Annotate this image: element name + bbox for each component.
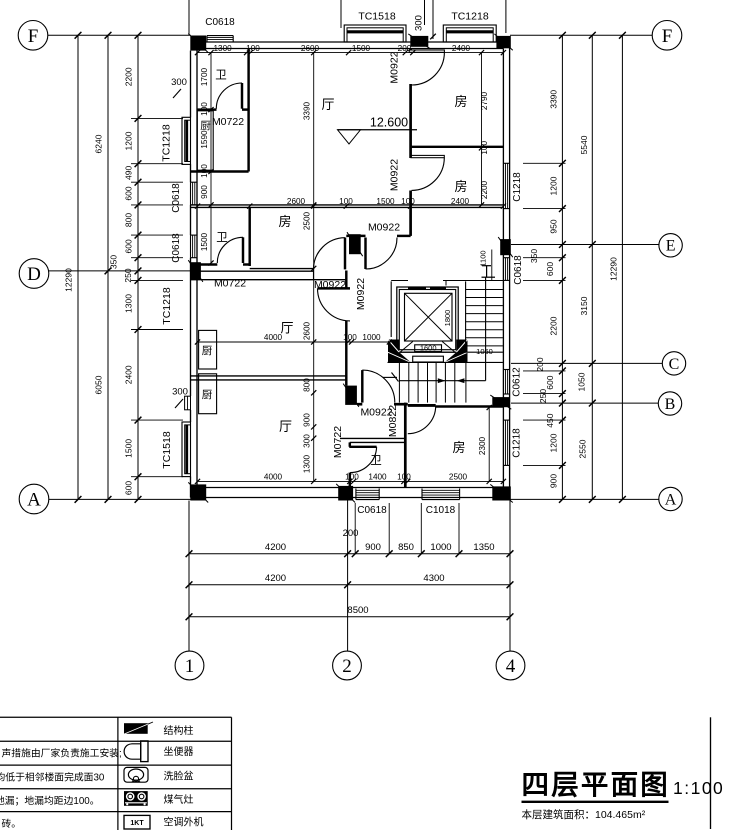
dim 300 top-left (171, 77, 187, 98)
svg-text:1300: 1300 (303, 454, 312, 473)
kitchen counter 3 (199, 374, 217, 414)
wall bedroom-mid bottom (191, 269, 348, 280)
svg-text:900: 900 (303, 413, 312, 427)
top wall outer line (191, 41, 504, 43)
svg-text:D: D (27, 264, 41, 285)
axis extension 1 top (188, 0, 190, 35)
svg-text:2400: 2400 (451, 197, 470, 206)
svg-text:4200: 4200 (265, 542, 286, 553)
wall row2 full (191, 204, 507, 209)
elevator cab with X (405, 293, 453, 341)
svg-text:TC1218: TC1218 (451, 11, 489, 23)
wall bath2 right (248, 207, 250, 266)
svg-text:1800: 1800 (443, 310, 452, 327)
room label fang3 (278, 214, 291, 229)
svg-text:C0618: C0618 (205, 17, 235, 28)
svg-text:房: 房 (278, 214, 291, 229)
svg-text:M0722: M0722 (332, 426, 344, 458)
svg-text:C0618: C0618 (513, 255, 524, 285)
svg-text:3390: 3390 (303, 101, 312, 120)
column left at D (188, 260, 203, 282)
svg-text:12290: 12290 (609, 257, 619, 281)
title area note (522, 808, 646, 821)
elevator door dashes (408, 287, 446, 290)
svg-text:M0822: M0822 (387, 405, 399, 437)
svg-text:2500: 2500 (449, 473, 468, 482)
svg-text:1590: 1590 (200, 130, 209, 149)
svg-text:6240: 6240 (94, 134, 104, 153)
svg-text:厅: 厅 (279, 419, 292, 434)
stairs up symbol (482, 266, 496, 278)
dimension text 6240 (94, 134, 104, 153)
top wall inner line (198, 48, 504, 50)
svg-text:8500: 8500 (347, 605, 368, 616)
svg-text:1200: 1200 (549, 433, 559, 452)
svg-text:卫: 卫 (370, 455, 382, 467)
room label chu3 (202, 389, 213, 401)
window C1218 right lower (503, 420, 509, 465)
svg-text:3390: 3390 (549, 90, 559, 109)
column top axis2 (408, 34, 430, 49)
svg-text:3150: 3150 (579, 296, 589, 315)
svg-text:200: 200 (535, 357, 545, 371)
stairs direction line (399, 277, 486, 381)
bottom dimension row 2 line+ticks (186, 581, 514, 588)
label TC1518 left (161, 431, 173, 469)
svg-text:2200: 2200 (549, 316, 559, 335)
label C0618 right (513, 255, 524, 285)
svg-text:F: F (662, 26, 673, 47)
dimension text 3150 (579, 296, 589, 315)
svg-text:300: 300 (414, 15, 425, 31)
svg-text:800: 800 (124, 213, 134, 227)
bottom dimension texts row1 (265, 542, 495, 553)
svg-text:房: 房 (454, 94, 467, 109)
svg-text:1300: 1300 (124, 294, 134, 313)
svg-text:TC1218: TC1218 (161, 287, 173, 325)
door M0722 bath2 (217, 237, 243, 263)
room label fang2 (454, 179, 467, 194)
label M0922 bedroom-mid (314, 279, 346, 291)
door M0922 unit3 entry (362, 370, 395, 403)
svg-text:100: 100 (200, 164, 209, 178)
svg-text:100: 100 (246, 44, 260, 53)
interior dim row1 line (195, 50, 506, 55)
svg-text:5540: 5540 (579, 135, 589, 154)
svg-text:1500: 1500 (200, 232, 209, 251)
svg-text:M0722: M0722 (212, 116, 244, 128)
bottom dimension texts row2 (265, 573, 445, 584)
right wall inner line (502, 49, 504, 488)
svg-text:600: 600 (124, 239, 134, 253)
door M0922 bedroom1 (409, 50, 444, 85)
svg-text:2: 2 (342, 656, 352, 677)
elevator corner block right (445, 340, 468, 363)
label C0618 left lower (171, 233, 182, 263)
dimension chain right inner line+ticks (559, 32, 566, 503)
svg-text:300: 300 (172, 387, 188, 398)
svg-text:坐便器: 坐便器 (164, 745, 194, 758)
column bottom-left corner (188, 482, 208, 502)
label C0618 bottom (357, 505, 387, 516)
wall elevator lobby top (391, 281, 503, 286)
wall bath1 right (247, 49, 249, 172)
frame line right (710, 717, 712, 829)
svg-text:450: 450 (545, 413, 555, 427)
axis circle C (662, 352, 685, 375)
svg-text:100: 100 (397, 473, 411, 482)
svg-text:洗脸盆: 洗脸盆 (164, 770, 194, 783)
label M0922 unit3 entry (360, 406, 392, 418)
svg-text:900: 900 (200, 185, 209, 199)
wall bedroom4 top (436, 405, 504, 407)
svg-text:800: 800 (303, 378, 312, 392)
svg-text:C0618: C0618 (171, 183, 182, 213)
label M0722 bath2 (214, 278, 246, 290)
svg-text:1700: 1700 (200, 67, 209, 86)
door M0922 corridor east (366, 238, 398, 270)
svg-text:C1218: C1218 (512, 172, 523, 202)
svg-text:C1218: C1218 (512, 428, 523, 458)
room label fang4 (452, 440, 465, 455)
svg-text:4200: 4200 (265, 573, 286, 584)
axis circle A right (659, 487, 682, 510)
extension lines bottom windows (355, 503, 459, 554)
svg-text:1500: 1500 (352, 44, 371, 53)
svg-text:结构柱: 结构柱 (164, 724, 194, 737)
extension line top x341 (340, 0, 342, 28)
column top-left corner (188, 34, 208, 53)
label M0822 bedroom4 (387, 405, 399, 437)
window C1218 right upper (503, 163, 509, 208)
label TC1218 top (451, 11, 489, 23)
column center lower (343, 384, 359, 407)
elevator shaft inner (399, 290, 455, 350)
extension line top x424.5 (424, 0, 426, 25)
elevator corner block left (388, 340, 411, 363)
wall bath3 left (349, 442, 351, 487)
room label ting3 (279, 419, 292, 434)
interior dim column left texts (200, 67, 209, 251)
svg-text:350: 350 (529, 249, 539, 263)
svg-text:厅: 厅 (321, 97, 334, 112)
svg-text:4000: 4000 (264, 473, 283, 482)
axis line A left (49, 498, 191, 500)
dimension text 6050 (94, 375, 104, 394)
stairs upper flight treads (466, 281, 503, 352)
dimension chain right middle line+ticks (589, 32, 596, 503)
legend label stove (164, 793, 194, 806)
label C1218 right lower (512, 428, 523, 458)
axis circle E (659, 234, 682, 257)
legend note row5 (2, 817, 22, 830)
svg-text:地漏；地漏均距边100。: 地漏；地漏均距边100。 (0, 794, 100, 807)
legend icon column (123, 722, 153, 735)
bay window TC1218 top (443, 25, 496, 42)
svg-text:TC1518: TC1518 (358, 11, 396, 23)
dimension chain right outer line+ticks (619, 32, 626, 503)
legend label column (164, 724, 194, 737)
column bottom-right corner (490, 484, 513, 502)
axis circle 1 (175, 651, 204, 680)
left wall inner line (196, 49, 198, 488)
svg-text:2790: 2790 (480, 91, 489, 110)
stairs landing line 2 (388, 361, 503, 363)
title text (522, 769, 671, 800)
legend note row3 (0, 771, 105, 784)
bottom dimension row 1 line+ticks (186, 550, 514, 557)
svg-text:6050: 6050 (94, 375, 104, 394)
interior dim column mid line (311, 50, 316, 484)
svg-text:100: 100 (401, 197, 415, 206)
svg-text:C: C (669, 356, 680, 373)
level mark 12.600 (338, 116, 418, 145)
axis circle A left (19, 484, 49, 514)
svg-text:600: 600 (545, 375, 555, 389)
dimension text 12290 right (609, 257, 619, 281)
elevator sill (388, 352, 468, 362)
svg-text:100: 100 (345, 473, 359, 482)
svg-text:1600: 1600 (420, 343, 437, 352)
wall bath3-bedroom4 divider (404, 403, 407, 488)
svg-text:C0618: C0618 (357, 505, 387, 516)
svg-text:950: 950 (549, 219, 559, 233)
label M0922 bedroom2 (389, 159, 401, 191)
interior dim row1 texts (213, 44, 470, 53)
interior dim row3 texts (264, 333, 381, 342)
svg-text:2200: 2200 (480, 180, 489, 199)
svg-text:1350: 1350 (473, 542, 494, 553)
svg-text:300: 300 (303, 434, 312, 448)
svg-text:C1018: C1018 (426, 505, 456, 516)
title scale (673, 778, 724, 798)
axis circle 2 (333, 651, 362, 680)
dimension text 5540 (579, 135, 589, 154)
svg-text:2400: 2400 (452, 44, 471, 53)
interior dim bedroom4 line (478, 405, 492, 484)
room label ting2 (280, 321, 293, 336)
wall stair lobby bottom (357, 403, 408, 406)
svg-text:A: A (27, 490, 41, 511)
axis line C (511, 362, 662, 364)
window C0612 right (503, 370, 509, 395)
interior dim column left line (208, 50, 213, 266)
bottom dimension text 8500 (347, 605, 368, 616)
room label wei2 (216, 232, 228, 244)
svg-text:300: 300 (171, 77, 187, 88)
door M0922 bedroom-mid (314, 238, 346, 270)
svg-text:C0618: C0618 (171, 233, 182, 263)
axis circle B (658, 392, 681, 415)
interior dim row3 line (195, 339, 392, 344)
legend icon AC unit (124, 815, 150, 829)
wall elevator lobby west (390, 281, 392, 337)
axis line E (511, 244, 659, 246)
title underline (522, 801, 669, 803)
svg-text:1100: 1100 (479, 250, 488, 266)
door M0922 bedroom2 (411, 155, 444, 190)
dimension text 1050 (577, 372, 587, 391)
svg-text:900: 900 (365, 542, 381, 553)
door M0822 bedroom4 (408, 405, 436, 433)
window 300 left (185, 396, 191, 410)
bottom dimension row 3 line+ticks (186, 613, 514, 620)
svg-text:1000: 1000 (430, 542, 451, 553)
svg-text:A: A (665, 491, 677, 508)
svg-text:1: 1 (185, 656, 195, 677)
svg-text:1500: 1500 (124, 439, 134, 458)
legend label basin (164, 770, 194, 783)
svg-text:2600: 2600 (301, 44, 320, 53)
dimension chain left middle line+ticks (105, 32, 112, 503)
svg-text:厨: 厨 (202, 345, 213, 357)
room label chu2 (202, 345, 213, 357)
wall bath2 bottom (197, 263, 250, 265)
svg-text:F: F (28, 26, 39, 47)
extension lines right (523, 163, 566, 465)
svg-text:2600: 2600 (287, 197, 306, 206)
svg-text:600: 600 (124, 186, 134, 200)
label TC1518 top (358, 11, 396, 23)
svg-text:B: B (665, 396, 676, 413)
room label wei3 (370, 455, 382, 467)
svg-text:1300: 1300 (213, 44, 232, 53)
elevator corner brace right (442, 342, 454, 352)
label M0722 bath1 (212, 116, 244, 128)
room label ting1 (321, 97, 334, 112)
svg-text:2500: 2500 (303, 211, 312, 230)
interior dim column right texts (480, 91, 489, 199)
svg-text:200: 200 (343, 528, 359, 539)
dimension texts right inner (529, 90, 559, 489)
svg-text:厨: 厨 (200, 120, 211, 132)
axis circle F right (652, 21, 682, 51)
stairs direction hook (383, 373, 399, 382)
label C0618 top (205, 17, 235, 28)
wall corridor top (346, 235, 410, 237)
svg-text:100: 100 (339, 197, 353, 206)
bay window TC1518 left (182, 422, 191, 477)
svg-text:1000: 1000 (362, 333, 381, 342)
axis line D (49, 270, 191, 272)
svg-text:房: 房 (452, 440, 465, 455)
wall bath3 top (340, 438, 405, 442)
label C1018 bottom (426, 505, 456, 516)
svg-text:1500: 1500 (376, 197, 395, 206)
window C0618 left lower (191, 235, 198, 258)
wall units2-3 divider (191, 376, 348, 380)
wall kitchen1 bottom (191, 170, 249, 172)
elevator corner brace left (401, 342, 413, 352)
elevator shaft outer (397, 287, 458, 352)
axis circle D (19, 259, 49, 289)
window C1018 bottom (422, 489, 460, 500)
bay window TC1518 top (344, 25, 406, 42)
svg-text:1400: 1400 (368, 473, 387, 482)
svg-text:M0922: M0922 (389, 159, 401, 191)
svg-text:E: E (666, 238, 676, 255)
svg-text:空调外机: 空调外机 (164, 816, 204, 829)
axis line F right (510, 34, 652, 36)
svg-text:2300: 2300 (478, 436, 487, 455)
room label fang1 (454, 94, 467, 109)
wall hall divider x410 (409, 49, 412, 236)
dimension text 12290 left (64, 268, 74, 292)
window C0618 left upper (191, 182, 198, 205)
stairs direction arrow left (457, 378, 465, 383)
kitchen counter 1 (197, 111, 213, 170)
door M0722 bath3 (349, 447, 376, 473)
column top-right corner (494, 34, 512, 50)
dimension chain left outer line+ticks (75, 32, 82, 503)
svg-text:M0922: M0922 (355, 278, 367, 310)
label TC1218 left lower (161, 287, 173, 325)
column center (347, 232, 363, 256)
svg-text:卫: 卫 (216, 232, 228, 244)
axis line A right (510, 498, 659, 500)
svg-text:100: 100 (343, 333, 357, 342)
stairs direction arrow right (438, 378, 446, 383)
svg-text:砖。: 砖。 (2, 817, 22, 830)
svg-text:M0922: M0922 (389, 51, 401, 83)
interior dim row4 texts (264, 473, 468, 482)
window C0618 bottom (356, 489, 379, 500)
svg-text:四层平面图: 四层平面图 (522, 769, 671, 800)
label M0922 bedroom1 (389, 51, 401, 83)
svg-text:C0612: C0612 (512, 367, 523, 397)
axis circle F left (18, 21, 48, 51)
window C0618 right (503, 258, 509, 281)
stairs dim 1060 (476, 347, 493, 356)
svg-text:本层建筑面积：104.465m²: 本层建筑面积：104.465m² (522, 808, 646, 821)
svg-text:1060: 1060 (476, 347, 493, 356)
svg-text:600: 600 (545, 262, 555, 276)
dimension text 2550 (578, 439, 588, 458)
svg-text:350: 350 (109, 255, 119, 269)
legend label AC unit (164, 816, 204, 829)
wall bath1 bottom (197, 108, 249, 110)
left wall outer line segments (190, 51, 192, 498)
svg-text:厅: 厅 (280, 321, 293, 336)
interior dim column right line (479, 50, 484, 208)
svg-text:M0922: M0922 (368, 222, 400, 234)
interior dim column mid texts (303, 101, 312, 473)
wall corridor west upper (345, 271, 347, 289)
svg-text:1200: 1200 (124, 131, 134, 150)
svg-text:250: 250 (123, 268, 133, 282)
bottom wall inner line (198, 487, 504, 489)
svg-text:TC1218: TC1218 (161, 124, 173, 162)
legend note row4 (0, 794, 100, 807)
label C1218 right upper (512, 172, 523, 202)
stairs dim 1100 (479, 250, 492, 281)
svg-text:TC1518: TC1518 (161, 431, 173, 469)
window C0618 top (207, 36, 233, 42)
svg-text:M0722: M0722 (214, 278, 246, 290)
svg-text:900: 900 (549, 474, 559, 488)
extension line top x433 (430, 0, 436, 39)
svg-text:均低于相邻楼面完成面30: 均低于相邻楼面完成面30 (0, 771, 105, 784)
label C0618 left upper (171, 183, 182, 213)
column right at E (498, 237, 513, 257)
axis line B (511, 402, 658, 404)
svg-text:煤气灶: 煤气灶 (164, 793, 194, 806)
svg-text:2200: 2200 (124, 67, 134, 86)
extension lines left (131, 118, 183, 476)
bay window TC1218 left (182, 117, 191, 164)
label M0922 unit2 entry (355, 278, 367, 310)
axis line 1 bottom (188, 501, 190, 652)
